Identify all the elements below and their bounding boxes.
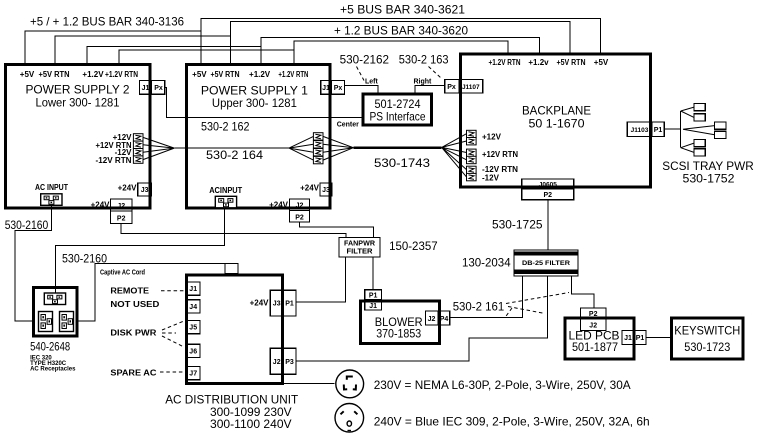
svg-text:530-2162: 530-2162 — [340, 53, 390, 67]
svg-text:J2: J2 — [296, 203, 304, 210]
connector P2/J2 LED PCB — [580, 308, 606, 331]
svg-text:Px: Px — [154, 85, 163, 92]
svg-text:530-2 164: 530-2 164 — [206, 148, 263, 162]
dashed pointer 530-2162 to Left — [357, 67, 365, 81]
blower box B1 — [360, 301, 439, 344]
svg-text:J3: J3 — [322, 187, 330, 194]
dashed pointer DISK PWR to J6 — [162, 336, 184, 347]
svg-text:+5V: +5V — [192, 70, 207, 79]
svg-text:REMOTE: REMOTE — [110, 287, 149, 296]
svg-text:530-1743: 530-1743 — [374, 156, 430, 170]
svg-text:+24V: +24V — [269, 201, 289, 210]
svg-text:Px: Px — [447, 84, 456, 91]
svg-text:530-2 163: 530-2 163 — [399, 53, 449, 67]
svg-text:Upper 300- 1281: Upper 300- 1281 — [212, 96, 297, 110]
svg-text:P4: P4 — [440, 316, 449, 323]
svg-text:+24V: +24V — [250, 299, 270, 308]
svg-text:J3: J3 — [273, 301, 281, 308]
connector J2/P4 blower — [426, 311, 450, 325]
wire PS interface right to backplane Px — [415, 86, 445, 93]
LED PCB box — [565, 318, 634, 359]
wire +1.2V PS2 to PS1 — [87, 47, 261, 63]
connector J0605/P2 backplane bottom — [522, 179, 574, 200]
connector J2/P3 ACDU — [270, 348, 296, 374]
svg-text:530-1725: 530-1725 — [492, 218, 543, 232]
wire PS2 P2 to fan pwr filter — [121, 224, 346, 238]
connector pins backplane 12V — [467, 130, 477, 137]
svg-text:AC INPUT: AC INPUT — [35, 183, 68, 192]
svg-text:540-2648: 540-2648 — [30, 340, 70, 354]
connector pins PS1 12V — [313, 133, 323, 140]
svg-text:-12V: -12V — [482, 174, 500, 183]
svg-text:FILTER: FILTER — [347, 249, 373, 256]
svg-text:AC Receptacles: AC Receptacles — [30, 367, 76, 373]
dashed pointer 530-2161 a — [506, 293, 569, 304]
svg-text:FANPWR: FANPWR — [344, 241, 375, 248]
connector SCSI tray plugs — [694, 104, 705, 111]
keyswitch box S1 — [672, 318, 744, 359]
svg-text:ACINPUT: ACINPUT — [209, 186, 242, 195]
svg-text:+1.2V: +1.2V — [82, 70, 104, 79]
svg-text:NOT USED: NOT USED — [110, 300, 159, 309]
dashed pointer 530-2161 c — [505, 308, 512, 318]
DB-25 filter box — [514, 250, 578, 276]
wire +1.2V RTN PS2 to PS1 — [119, 50, 294, 63]
wire PS1 Px to PS interface left — [345, 86, 378, 93]
svg-text:P3: P3 — [285, 359, 294, 366]
connector J7 ACDU — [187, 366, 200, 379]
wire PS1 P2 to fan pwr filter — [299, 222, 373, 238]
svg-text:+24V: +24V — [300, 184, 320, 193]
wire +5V RTN PS2 to PS1 — [55, 36, 231, 63]
wire +5V PS2 to PS1 — [25, 31, 201, 63]
connector J4 ACDU — [187, 300, 200, 313]
svg-text:+5V RTN: +5V RTN — [39, 70, 70, 79]
svg-text:J1103: J1103 — [631, 127, 649, 134]
power supply PS1 box — [187, 65, 331, 209]
connector AC cord inlet — [44, 293, 65, 305]
svg-text:370-1853: 370-1853 — [376, 327, 421, 341]
wire fan pwr filter to ACDU P1 — [296, 257, 346, 302]
svg-text:+24V: +24V — [91, 201, 111, 210]
svg-text:+5V: +5V — [594, 58, 609, 67]
svg-text:POWER SUPPLY 2: POWER SUPPLY 2 — [26, 83, 130, 97]
connector P1/J1 blower — [365, 290, 382, 310]
connector AC input PS1 — [215, 196, 236, 208]
svg-text:Left: Left — [365, 79, 379, 86]
wire fan pwr filter to blower P1 — [372, 257, 374, 290]
wire SCSI tray distribution trunk — [680, 111, 682, 148]
connector J1/P1 LED PCB — [622, 331, 646, 345]
wire PS2 Px to PS interface center — [165, 87, 362, 117]
wire DB-25 to LED PCB P2 — [572, 276, 594, 308]
plug 230V NEMA L6-30P — [336, 370, 364, 398]
svg-text:+5V: +5V — [20, 70, 35, 79]
wire fan PS2 12V harness — [143, 137, 174, 159]
AC receptacle box 540-2648 — [34, 287, 77, 336]
svg-text:J2: J2 — [273, 359, 281, 366]
svg-text:50 1-1670: 50 1-1670 — [529, 116, 585, 130]
svg-text:Center: Center — [337, 122, 359, 129]
plug 240V IEC 309 — [335, 404, 364, 433]
svg-text:150-2357: 150-2357 — [389, 239, 438, 253]
svg-text:+5V RTN: +5V RTN — [557, 58, 586, 67]
svg-text:J2: J2 — [428, 316, 436, 323]
wire fan SCSI tray — [681, 107, 715, 152]
svg-text:J2: J2 — [117, 203, 125, 210]
PS interface box U1 — [363, 94, 432, 125]
svg-text:P2: P2 — [295, 215, 304, 222]
dashed pointer DISK PWR middle — [162, 332, 176, 334]
svg-text:P1: P1 — [285, 301, 294, 308]
wire PS2 AC input to receptacle box — [15, 205, 52, 320]
wire LED PCB P1 to keyswitch — [646, 337, 670, 339]
svg-text:P2: P2 — [544, 192, 553, 199]
connector J1103/P1 backplane — [627, 122, 664, 136]
svg-text:+1.2V RTN: +1.2V RTN — [489, 58, 521, 67]
wire DB-25 to blower P4 — [450, 276, 523, 318]
svg-text:Lower 300- 1281: Lower 300- 1281 — [36, 96, 120, 110]
connector J5 ACDU — [187, 320, 200, 333]
svg-text:J1: J1 — [369, 303, 377, 310]
wire 530-1743 harness thick — [353, 146, 441, 149]
svg-text:240V = Blue IEC 309, 2-Pole, 3: 240V = Blue IEC 309, 2-Pole, 3-Wire, 250… — [374, 415, 650, 429]
svg-text:Px: Px — [334, 85, 343, 92]
svg-text:530-1723: 530-1723 — [684, 340, 730, 354]
svg-text:530-2 161: 530-2 161 — [453, 300, 505, 314]
connector J1 ACDU — [187, 282, 200, 295]
svg-text:DISK PWR: DISK PWR — [110, 328, 156, 337]
svg-text:KEYSWITCH: KEYSWITCH — [674, 324, 740, 338]
svg-text:530-2 162: 530-2 162 — [201, 120, 250, 134]
connector tab ACDU top — [225, 264, 238, 274]
connector AC input PS2 — [41, 194, 62, 206]
svg-text:P2: P2 — [117, 216, 126, 223]
dashed pointer 530-2163 to Px — [429, 67, 442, 79]
wire backplane P1 to SCSI tray fan — [664, 128, 681, 130]
svg-text:+1.2v: +1.2v — [528, 58, 549, 67]
svg-text:P1: P1 — [654, 127, 663, 134]
svg-text:+ 1.2 BUS BAR 340-3620: + 1.2 BUS BAR 340-3620 — [334, 24, 468, 38]
svg-text:J4: J4 — [189, 304, 197, 311]
svg-text:300-1100 240V: 300-1100 240V — [210, 417, 292, 431]
dashed pointer 530-2161 b — [508, 307, 545, 314]
svg-text:J1: J1 — [189, 286, 197, 293]
dashed pointer REMOTE to J1 — [161, 290, 185, 292]
svg-text:230V = NEMA L6-30P, 2-Pole, 3-: 230V = NEMA L6-30P, 2-Pole, 3-Wire, 250V… — [374, 378, 631, 392]
svg-text:+5V RTN: +5V RTN — [211, 70, 240, 79]
svg-text:530-2160: 530-2160 — [5, 218, 49, 232]
svg-text:J0605: J0605 — [539, 182, 557, 189]
wire PS1 AC input to receptacle box — [55, 208, 224, 293]
wire fan PS1 12V left — [289, 136, 313, 160]
svg-text:501-1877: 501-1877 — [572, 340, 618, 354]
wire fan PS1 12V right — [323, 136, 353, 160]
receptacle outlet right — [60, 312, 74, 332]
svg-text:+5 BUS BAR 340-3621: +5 BUS BAR 340-3621 — [340, 3, 465, 17]
dashed pointer SPARE AC to J7 — [160, 371, 185, 373]
svg-text:+1.2V: +1.2V — [249, 70, 271, 79]
power supply PS2 box — [6, 65, 151, 209]
svg-text:Captive AC Cord: Captive AC Cord — [100, 269, 145, 276]
svg-text:+5 / + 1.2 BUS BAR 340-3136: +5 / + 1.2 BUS BAR 340-3136 — [30, 15, 184, 29]
svg-text:P1: P1 — [369, 293, 378, 300]
svg-text:J1: J1 — [624, 335, 632, 342]
svg-text:DB-25 FILTER: DB-25 FILTER — [522, 260, 570, 267]
dashed pointer DISK PWR to J5 — [162, 321, 184, 330]
backplane box — [460, 54, 650, 187]
svg-text:SPARE AC: SPARE AC — [110, 368, 156, 377]
svg-text:J1: J1 — [322, 85, 330, 92]
wire +1.2 RTN bus PS1 to backplane — [294, 41, 508, 63]
wire DB-25 to ACDU P3 — [296, 276, 548, 361]
svg-text:-12V RTN: -12V RTN — [96, 156, 132, 165]
svg-text:PS Interface: PS Interface — [370, 110, 426, 124]
wire +5 RTN bus PS1 to backplane — [231, 21, 571, 63]
svg-text:+24V: +24V — [118, 184, 138, 193]
wire +5 bus bar PS1 to backplane — [201, 19, 601, 64]
svg-text:Right: Right — [414, 79, 433, 86]
svg-text:J7: J7 — [189, 371, 197, 378]
connector J1/Px PS2 — [140, 81, 165, 95]
svg-text:J6: J6 — [189, 349, 197, 356]
svg-text:J1: J1 — [142, 85, 150, 92]
wire AC cord to 230V plug — [284, 383, 335, 385]
svg-text:J5: J5 — [189, 325, 197, 332]
svg-text:+12V: +12V — [482, 133, 502, 142]
wire captive AC cord to ACDU — [78, 264, 230, 321]
receptacle outlet left — [39, 312, 53, 332]
wire 530-2164 harness — [174, 147, 289, 149]
connector J6 ACDU — [187, 344, 200, 357]
svg-text:J1107: J1107 — [462, 84, 480, 91]
svg-text:+1.2V RTN: +1.2V RTN — [105, 70, 138, 79]
svg-text:P1: P1 — [636, 335, 645, 342]
svg-text:130-2034: 130-2034 — [462, 256, 511, 270]
connector pins PS2 12V output — [133, 134, 143, 141]
svg-text:J3: J3 — [141, 187, 149, 194]
connector J1/Px PS1 — [321, 81, 345, 95]
wire fan backplane 12V — [442, 134, 467, 177]
svg-text:+1.2V RTN: +1.2V RTN — [278, 70, 308, 79]
svg-text:+12V RTN: +12V RTN — [482, 150, 518, 159]
connector Px/J1107 backplane — [445, 79, 483, 93]
svg-text:530-1752: 530-1752 — [683, 172, 735, 186]
AC distribution unit box — [187, 275, 283, 384]
fan pwr filter box FL1 — [339, 238, 380, 258]
wire +1.2 bus bar PS1 to backplane — [261, 37, 540, 63]
wire 530-1725 J0605 P2 to DB-25 filter — [547, 200, 549, 250]
